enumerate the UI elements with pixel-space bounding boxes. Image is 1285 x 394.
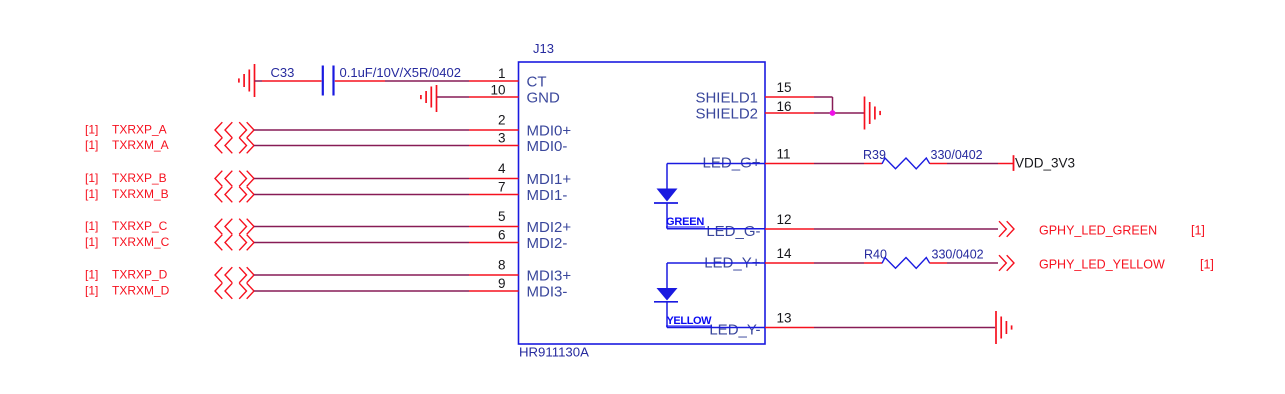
svg-text:TXRXM_D: TXRXM_D [112,284,170,298]
svg-text:12: 12 [777,212,792,227]
svg-text:HR911130A: HR911130A [519,345,589,360]
svg-text:13: 13 [777,311,792,326]
svg-text:MDI3-: MDI3- [527,284,568,301]
svg-text:9: 9 [498,276,506,291]
svg-text:0.1uF/10V/X5R/0402: 0.1uF/10V/X5R/0402 [340,65,461,80]
svg-text:TXRXM_C: TXRXM_C [112,235,170,249]
svg-text:TXRXM_B: TXRXM_B [112,187,169,201]
svg-text:11: 11 [777,147,791,162]
svg-text:[1]: [1] [85,284,98,298]
svg-text:[1]: [1] [85,187,98,201]
svg-text:SHIELD2: SHIELD2 [695,106,758,123]
svg-text:LED_Y-: LED_Y- [709,322,760,339]
svg-text:[1]: [1] [85,138,98,152]
svg-text:2: 2 [498,113,506,128]
svg-text:MDI2-: MDI2- [527,235,568,252]
svg-text:7: 7 [498,179,506,194]
svg-text:MDI0+: MDI0+ [527,123,572,140]
svg-text:GPHY_LED_GREEN: GPHY_LED_GREEN [1039,224,1157,238]
svg-text:16: 16 [777,99,792,114]
svg-text:VDD_3V3: VDD_3V3 [1015,156,1075,171]
svg-text:6: 6 [498,227,506,242]
svg-text:330/0402: 330/0402 [931,148,983,162]
svg-text:MDI1+: MDI1+ [527,171,572,188]
svg-text:LED_G-: LED_G- [706,223,760,240]
svg-text:GREEN: GREEN [666,216,704,228]
svg-text:1: 1 [498,66,506,81]
svg-text:MDI1-: MDI1- [527,187,568,204]
svg-text:MDI3+: MDI3+ [527,268,572,285]
svg-text:10: 10 [490,83,505,98]
svg-text:8: 8 [498,258,506,273]
svg-text:YELLOW: YELLOW [667,315,713,327]
svg-text:14: 14 [777,246,793,261]
svg-text:[1]: [1] [1200,258,1214,272]
svg-text:[1]: [1] [85,268,98,282]
svg-text:[1]: [1] [1191,224,1205,238]
svg-text:MDI0-: MDI0- [527,138,568,155]
svg-text:GPHY_LED_YELLOW: GPHY_LED_YELLOW [1039,258,1165,272]
svg-text:MDI2+: MDI2+ [527,219,572,236]
svg-text:5: 5 [498,209,506,224]
svg-text:[1]: [1] [85,219,98,233]
svg-text:15: 15 [777,80,792,95]
svg-text:TXRXM_A: TXRXM_A [112,138,169,152]
svg-text:TXRXP_B: TXRXP_B [112,171,167,185]
svg-text:J13: J13 [533,41,554,56]
svg-text:TXRXP_C: TXRXP_C [112,219,168,233]
svg-text:R39: R39 [863,148,886,162]
svg-text:C33: C33 [271,65,295,80]
svg-text:[1]: [1] [85,235,98,249]
svg-text:4: 4 [498,161,506,176]
svg-text:TXRXP_D: TXRXP_D [112,268,168,282]
svg-text:330/0402: 330/0402 [932,248,984,262]
svg-text:SHIELD1: SHIELD1 [695,90,758,107]
svg-text:TXRXP_A: TXRXP_A [112,123,167,137]
svg-text:3: 3 [498,130,506,145]
svg-text:GND: GND [527,90,561,107]
svg-text:[1]: [1] [85,171,98,185]
svg-text:CT: CT [527,74,547,91]
svg-text:[1]: [1] [85,123,98,137]
